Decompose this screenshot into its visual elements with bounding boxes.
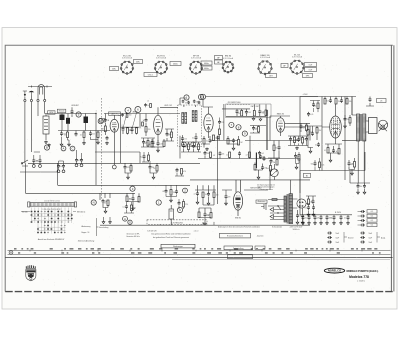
IF transformer T2 shield box — [226, 104, 272, 118]
column x219 parts — [218, 120, 221, 125]
wire — [180, 98, 195, 107]
svg-text:( 17-48 ): ( 17-48 ) — [357, 280, 365, 282]
svg-text:68: 68 — [296, 157, 298, 159]
screen partition dashed — [101, 98, 103, 200]
circled 3b — [130, 186, 135, 191]
wire bus 163 — [28, 162, 200, 164]
Gerausch label box — [256, 200, 267, 203]
svg-text:470: 470 — [127, 167, 130, 169]
circled N — [91, 200, 96, 205]
box on partition — [99, 118, 105, 122]
resistor R14 — [203, 139, 205, 145]
components cluster x125-150 — [126, 196, 128, 202]
column x295-299 — [294, 154, 297, 159]
svg-text:6,3V 760mA: 6,3V 760mA — [292, 56, 303, 59]
chassis bus 225 — [130, 224, 310, 226]
svg-text:Ersatzteil-Nummern: Ersatzteil-Nummern — [227, 235, 243, 238]
resistor R13 — [171, 132, 173, 138]
svg-text:A: A — [124, 217, 126, 221]
resistor R20 — [324, 99, 326, 105]
svg-text:EABC 80: EABC 80 — [277, 112, 284, 115]
wire transformer to bus — [291, 171, 300, 194]
svg-text:0,1: 0,1 — [324, 150, 326, 152]
svg-text:68: 68 — [102, 128, 104, 130]
capacitor C20 — [329, 98, 332, 103]
legend capacitor row 4 — [360, 224, 365, 227]
socket label box V4 left upper — [215, 56, 223, 60]
svg-text:OSC 1: OSC 1 — [148, 75, 153, 77]
svg-text:12 11 10 9 8 7 6 5 4 3 2 1: 12 11 10 9 8 7 6 5 4 3 2 1 — [44, 200, 60, 202]
components below IF1 — [182, 143, 185, 148]
svg-text:0,05: 0,05 — [160, 144, 163, 146]
resistor R11 — [151, 142, 153, 148]
wire bus 140.5 — [210, 97, 357, 141]
svg-text:Modelos 778: Modelos 778 — [349, 275, 369, 279]
parts on detector wire — [300, 124, 303, 128]
wave band switch S2 body — [28, 202, 30, 207]
speaker feed capacitor C22 — [369, 97, 372, 102]
parts x250-266 y123-133 — [252, 126, 255, 130]
svg-text:0,1: 0,1 — [351, 164, 353, 166]
volume potentiometer R19 (circle) — [270, 169, 278, 177]
socket label box V2 below — [144, 73, 157, 77]
svg-text:MW 1600 kc: MW 1600 kc — [77, 211, 86, 213]
switch matrix row wires — [31, 213, 72, 231]
heater wiring dashed box — [147, 220, 207, 225]
svg-text:UKW OSZ: UKW OSZ — [164, 105, 172, 107]
svg-text:2k2: 2k2 — [261, 153, 264, 155]
label box UKW — [48, 111, 56, 114]
wire — [222, 189, 268, 191]
svg-text:100: 100 — [248, 112, 251, 114]
svg-text:50uF: 50uF — [336, 242, 340, 244]
tube socket diagram EM 80 — [223, 62, 233, 72]
svg-text:5k6: 5k6 — [184, 146, 187, 148]
resistor R21 — [335, 99, 337, 105]
components below EL84 — [327, 148, 329, 154]
tube socket diagram ECH 81 — [155, 62, 167, 74]
svg-text:50uF: 50uF — [369, 233, 373, 235]
ground — [157, 149, 160, 152]
components at 305-318 y205-222 — [307, 205, 310, 210]
svg-text:10k: 10k — [222, 154, 225, 156]
pentode V2 ECH81 — [154, 115, 163, 134]
svg-text:6,3V 300mA: 6,3V 300mA — [223, 57, 234, 60]
svg-text:0,1: 0,1 — [123, 207, 125, 209]
svg-text:0,1: 0,1 — [206, 141, 208, 143]
RF coil L3 — [66, 118, 70, 124]
svg-text:25k: 25k — [59, 166, 62, 168]
capacitors beside shield bar — [259, 154, 262, 159]
antenna top wire — [28, 86, 52, 88]
svg-text:2k2: 2k2 — [360, 186, 363, 188]
wire — [165, 129, 174, 141]
svg-text:5k6: 5k6 — [36, 161, 39, 163]
svg-text:B: B — [46, 146, 48, 150]
socket label box V4 left lower — [215, 60, 223, 64]
svg-text:1k: 1k — [226, 154, 228, 156]
right area parts y160-180 — [348, 161, 351, 166]
svg-text:4,7: 4,7 — [194, 194, 196, 196]
svg-text:460kc: 460kc — [204, 68, 209, 70]
ground under L1 — [45, 141, 48, 144]
circled G — [128, 220, 132, 224]
circled 9 — [242, 131, 247, 136]
grounds under ZF row — [252, 117, 255, 120]
svg-text:5k6: 5k6 — [311, 164, 314, 166]
svg-text:1k: 1k — [331, 218, 333, 220]
wire bus 130.5 — [58, 130, 110, 132]
resistor R22 — [346, 99, 348, 105]
svg-text:0,1: 0,1 — [371, 220, 374, 222]
components near matrix — [102, 199, 105, 204]
svg-text:0,1: 0,1 — [128, 130, 130, 132]
resistor R15 — [213, 135, 215, 141]
label box — [377, 99, 387, 103]
capacitor C21 — [340, 98, 343, 103]
filter capacitor C26 — [302, 215, 305, 220]
extra parts near EM80 — [225, 194, 228, 199]
svg-text:6,3V 42V 14V: 6,3V 42V 14V — [147, 231, 156, 233]
capacitor C2b — [75, 132, 78, 137]
label box B+ — [304, 173, 311, 177]
ground — [333, 222, 336, 225]
circled 2 — [198, 94, 203, 99]
chassis bus extension — [100, 224, 130, 226]
svg-text:8,2: 8,2 — [299, 216, 301, 218]
socket label box V6 left — [281, 64, 288, 68]
label box L2 — [57, 109, 66, 112]
svg-text:6,3V 435mA: 6,3V 435mA — [122, 57, 133, 60]
wire risers — [237, 104, 266, 116]
ground — [326, 222, 329, 225]
speckle noise — [8, 49, 390, 289]
capacitor C13 — [166, 132, 169, 137]
capacitor C18 — [258, 109, 261, 114]
svg-text:0,1: 0,1 — [371, 216, 374, 218]
legend capacitor row 1 — [360, 210, 365, 213]
ground — [308, 222, 311, 225]
svg-text:68: 68 — [154, 168, 156, 170]
wire risers 130.5 — [62, 131, 99, 133]
parts x305-320 y100-118 — [312, 102, 315, 107]
IF stage partition wire — [223, 104, 225, 140]
components left of EL84 — [307, 130, 309, 136]
svg-text:150: 150 — [184, 139, 187, 141]
band switch S1 — [22, 160, 28, 166]
svg-text:NORELCO: NORELCO — [328, 269, 341, 273]
tube socket diagram EF 89 — [190, 62, 202, 74]
svg-text:B1: B1 — [306, 176, 308, 178]
grid cluster below V1 right — [122, 127, 125, 132]
components below V4 — [273, 145, 275, 151]
power transformer T4 primary — [284, 196, 286, 222]
svg-text:C: C — [71, 147, 73, 151]
triode-triple-diode V4 EABC80 — [276, 118, 284, 132]
svg-text:bei gedrucktem Punkt auf Cha: bei gedrucktem Punkt auf Chassis gemesse… — [153, 236, 189, 239]
circled A — [61, 146, 66, 151]
svg-text:50: 50 — [145, 143, 147, 145]
svg-text:A: A — [63, 147, 65, 151]
wire left verticals — [26, 163, 58, 193]
svg-text:0,05: 0,05 — [310, 114, 313, 116]
wire — [322, 97, 352, 181]
circled 8 — [236, 125, 241, 130]
socket label box V3 right lower — [201, 66, 212, 70]
svg-text:0,5: 0,5 — [305, 218, 307, 220]
filter capacitor C28 — [314, 215, 317, 220]
ground symbols on chassis bus — [102, 221, 105, 224]
svg-text:12k: 12k — [207, 153, 210, 155]
ground — [347, 222, 350, 225]
svg-text:50: 50 — [205, 194, 207, 196]
FM dipole antenna — [39, 87, 42, 95]
IF T1 bottom capacitors — [181, 136, 184, 141]
svg-text:1k: 1k — [147, 105, 149, 107]
svg-text:3n3: 3n3 — [104, 202, 107, 204]
circled C — [70, 146, 75, 151]
svg-text:1k: 1k — [336, 151, 338, 153]
fuse F1 — [272, 199, 277, 201]
shielded pair vertical — [266, 110, 267, 150]
RF coil L2 — [60, 115, 65, 121]
dial box 2 — [224, 246, 253, 250]
svg-text:25k: 25k — [273, 162, 276, 164]
antenna terminal arrow — [23, 91, 27, 94]
car antenna symbol — [29, 91, 35, 93]
output transformer T3 secondary — [363, 114, 366, 141]
svg-text:50/60 c/s: 50/60 c/s — [293, 229, 300, 231]
circled 6 — [135, 107, 141, 113]
circled 4 — [125, 107, 131, 113]
selenium rectifier B1 — [297, 199, 306, 208]
svg-text:0,5: 0,5 — [129, 199, 131, 201]
svg-text:L5: L5 — [147, 100, 149, 102]
resistor R3b — [83, 132, 85, 138]
svg-text:5k6: 5k6 — [314, 105, 317, 107]
parts x141-149 y152-164 — [143, 154, 146, 159]
legend capacitor row 3 — [360, 219, 365, 222]
svg-text:12k: 12k — [317, 218, 320, 220]
filter capacitor C29 — [320, 215, 323, 220]
svg-text:5k6: 5k6 — [148, 144, 151, 146]
resistor R17 — [253, 111, 255, 117]
column x146 — [145, 118, 148, 123]
dial cord line 3 — [5, 257, 392, 259]
capacitor C14 — [209, 138, 212, 143]
svg-text:3n3: 3n3 — [275, 148, 278, 150]
parts x142-148 y120-129 — [142, 122, 144, 126]
svg-text:6,3V 300mA: 6,3V 300mA — [156, 57, 167, 60]
socket label box V5 below — [266, 74, 277, 78]
circled 2a — [98, 119, 103, 124]
svg-text:470: 470 — [228, 197, 231, 199]
boxed note — [220, 233, 251, 238]
tuning indicator V6 EM80 — [233, 192, 242, 210]
RF coil L4 — [84, 117, 89, 124]
legend capacitor row 2 — [360, 215, 365, 218]
svg-text:4,7: 4,7 — [246, 154, 248, 156]
svg-text:UKW: UKW — [49, 112, 53, 114]
wire bus 185 — [58, 184, 190, 186]
svg-text:460kc: 460kc — [204, 63, 209, 65]
circled 2 pointer mid — [183, 188, 188, 193]
components hanging from bus 163 left-mid — [124, 165, 127, 170]
row of components y152-158 — [204, 151, 207, 156]
wire antenna down-leads — [25, 96, 45, 164]
svg-text:3n3: 3n3 — [326, 101, 329, 103]
wire top bus — [45, 113, 96, 115]
electrolytic C34 — [327, 232, 332, 235]
svg-text:Bogen - 16: Bogen - 16 — [82, 232, 90, 234]
ANT label box — [109, 112, 121, 115]
svg-text:0,05: 0,05 — [321, 164, 324, 166]
svg-text:220: 220 — [185, 204, 188, 206]
trimmer capacitor pair 3 — [75, 158, 78, 163]
socket label box V1 right — [134, 60, 143, 64]
svg-text:50: 50 — [238, 113, 240, 115]
trimmer capacitor pair 2 — [57, 164, 60, 169]
svg-text:460kc: 460kc — [173, 64, 178, 66]
components below IF2 — [227, 139, 229, 145]
schematic border frame — [5, 45, 393, 291]
NORELCO oval logo — [324, 268, 344, 273]
socket label box V6 right upper — [305, 63, 317, 67]
capacitor C15 — [217, 135, 220, 140]
bracket — [97, 218, 99, 236]
svg-text:MODELO PUERTO (ELEC.): MODELO PUERTO (ELEC.) — [347, 270, 379, 273]
svg-text:50uF: 50uF — [336, 233, 340, 235]
wire right bus 170 — [300, 152, 365, 171]
wire top right bus — [318, 96, 356, 98]
wire — [366, 97, 374, 107]
wire bus 172 left — [20, 171, 57, 173]
svg-text:25k: 25k — [262, 112, 265, 114]
svg-text:50: 50 — [255, 129, 257, 131]
svg-text:UKW ANT: UKW ANT — [71, 104, 79, 107]
circled 3 — [200, 94, 205, 99]
parts above grid bus — [121, 113, 124, 117]
electrolytic C35 — [327, 236, 332, 239]
capacitor C17 — [245, 110, 248, 115]
circled 1 — [184, 95, 189, 100]
wire bus 158.5 — [198, 156, 300, 159]
extra ground under coil — [48, 144, 51, 147]
svg-text:8,2: 8,2 — [168, 134, 170, 136]
circled 7 — [229, 122, 234, 127]
svg-text:N: N — [93, 201, 95, 205]
ground — [302, 222, 305, 225]
loudspeaker LS1 — [369, 118, 378, 134]
electrolytic capacitor C23 — [169, 209, 174, 219]
svg-text:Skalenseil-Anordnung: Skalenseil-Anordnung — [78, 239, 95, 242]
svg-text:4,7: 4,7 — [344, 218, 346, 220]
svg-text:8,2: 8,2 — [140, 157, 142, 159]
pentode V5 EL84 — [330, 116, 342, 138]
filter capacitor C32 — [340, 215, 343, 220]
svg-text:EM 80: EM 80 — [235, 218, 242, 220]
output transformer T3 primary — [357, 114, 360, 141]
svg-text:25k: 25k — [207, 215, 210, 217]
shield bar — [255, 153, 257, 169]
parts x343-351 y116-125 — [344, 117, 347, 122]
svg-text:B 250V: B 250V — [335, 212, 342, 214]
long vertical to output stage — [217, 136, 219, 204]
circled 5 — [76, 112, 81, 117]
wires below output transformer — [358, 141, 364, 183]
svg-text:6,3V 200mA: 6,3V 200mA — [191, 57, 202, 60]
node — [95, 113, 96, 114]
svg-text:68: 68 — [163, 191, 165, 193]
circled A lower — [123, 216, 128, 221]
electrolytic C39 — [360, 241, 365, 244]
svg-text:87-100: 87-100 — [59, 111, 65, 113]
parts above pot — [270, 159, 273, 164]
dial cord tick marks row2 — [18, 252, 20, 253]
wires to matrix — [100, 193, 110, 200]
column left of V1 — [104, 118, 107, 123]
triode V1 ECC85 — [110, 119, 118, 132]
mains prongs — [270, 208, 274, 219]
top right caps with grounds — [357, 184, 360, 189]
dial box 2b — [255, 246, 265, 249]
svg-text:150: 150 — [129, 115, 132, 117]
socket label box V6 right lower — [305, 68, 317, 72]
svg-text:8,2: 8,2 — [305, 208, 307, 210]
parts x165-185 y188-198 — [165, 189, 168, 194]
capacitor C2 — [60, 131, 63, 136]
wire — [352, 97, 357, 116]
filter capacitor C31 — [333, 215, 336, 220]
socket label box V3 right upper — [201, 61, 212, 65]
socket label box V6 below — [303, 74, 313, 78]
antenna connector circles — [24, 99, 26, 101]
mains connections — [268, 200, 284, 220]
tube socket diagram ECC 85 — [121, 62, 133, 74]
ground — [206, 148, 209, 151]
power transformer T4 core — [287, 194, 288, 224]
IF transformer T1 shield (dashed) — [178, 105, 202, 147]
circled 6 pointer — [182, 142, 187, 147]
svg-text:5k6: 5k6 — [266, 168, 269, 170]
switch matrix contact rows — [31, 211, 33, 212]
tube socket diagram EABC 80 — [259, 61, 272, 74]
pentode V3 EF89 — [204, 114, 213, 132]
filter capacitor C33 — [347, 215, 350, 220]
V1 pin connector — [112, 165, 116, 169]
resistor R12 — [163, 141, 165, 147]
svg-text:0,5: 0,5 — [192, 138, 194, 140]
cluster below V2 right — [142, 140, 145, 145]
mains plug — [261, 203, 266, 210]
tube socket diagram EL 84 — [291, 61, 304, 74]
svg-text:220: 220 — [221, 122, 224, 124]
Philips shield emblem — [26, 265, 36, 281]
trimmer capacitor pair 1 — [32, 158, 35, 163]
IF T1 winding pair B — [192, 111, 194, 122]
switch contacts — [277, 205, 278, 206]
components cluster x195-217 — [196, 191, 199, 196]
dial cord tick marks row1 — [14, 248, 17, 249]
resistor R16 — [241, 111, 243, 117]
wire bus 193 — [26, 192, 136, 194]
parts x175-182 y168 — [176, 168, 179, 173]
socket label box V2 right — [170, 62, 181, 66]
resistor R3d — [97, 132, 99, 138]
resistor R3 — [67, 132, 69, 138]
electrolytic C37 — [360, 232, 365, 235]
svg-text:2k2: 2k2 — [92, 134, 95, 136]
